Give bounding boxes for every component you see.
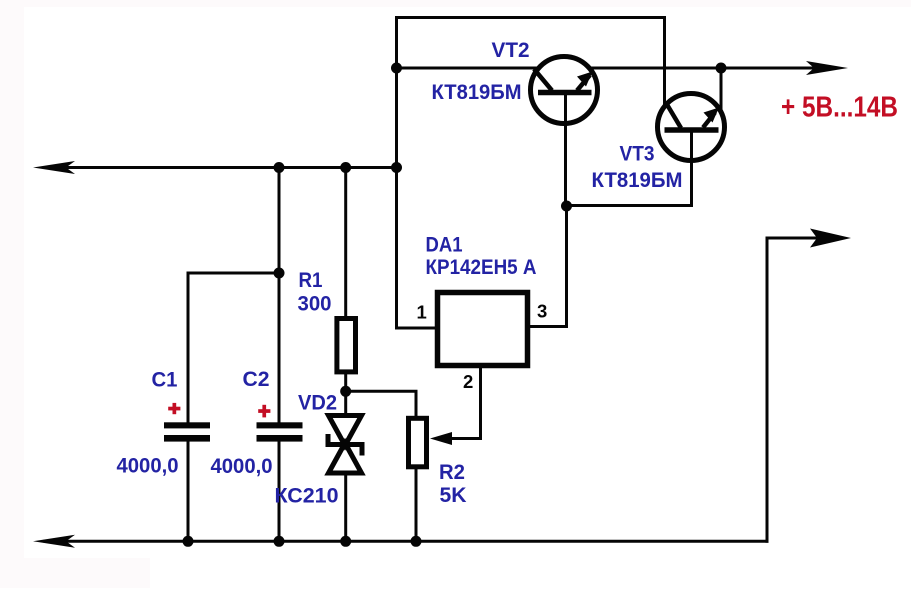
wire C1 bottom	[187, 440, 190, 541]
IC DA1 box	[438, 293, 528, 366]
wire R1 top	[344, 168, 347, 319]
node output emitter	[716, 63, 727, 74]
wire VT3 base down-left	[567, 130, 692, 206]
wire left input vertical	[395, 18, 398, 329]
wire second output horizontal	[767, 237, 818, 240]
arrow ground left	[33, 535, 75, 548]
transistor VT2	[531, 57, 598, 124]
svg-text:3: 3	[537, 301, 547, 322]
svg-text:2: 2	[463, 371, 473, 392]
wire VT3 collector drop	[663, 18, 666, 105]
zener diode VD2	[328, 416, 362, 474]
wire VD2 bottom	[344, 473, 347, 541]
capacitor C1	[164, 422, 210, 441]
wire node R1 to R2 top	[346, 391, 416, 418]
node input top	[391, 63, 402, 74]
wire ground rail bottom	[45, 540, 767, 543]
svg-text:4000,0: 4000,0	[211, 455, 273, 478]
node ground C1	[183, 536, 194, 547]
node ground C2	[274, 536, 285, 547]
svg-text:C1: C1	[152, 369, 178, 392]
label C2 plus	[258, 405, 270, 418]
wire second output vertical	[766, 238, 769, 541]
wire C1 top	[187, 273, 190, 424]
svg-text:R1: R1	[299, 269, 323, 292]
node R1 bottom	[340, 386, 351, 397]
svg-text:+ 5В...14В: + 5В...14В	[781, 92, 898, 124]
wire left AC input	[45, 166, 397, 169]
svg-text:1: 1	[417, 302, 427, 323]
node ground R2	[411, 536, 422, 547]
wire R2 wiper to pin2	[451, 368, 481, 439]
node C1 top	[274, 268, 285, 279]
node C2 top	[274, 162, 285, 173]
wire VT2 emitter to output	[592, 67, 820, 70]
arrow output mid-right	[810, 229, 851, 248]
arrow left input	[33, 161, 75, 174]
wire C2 bottom	[278, 440, 281, 541]
transistor VT3	[658, 94, 725, 161]
wire C2 branch	[278, 168, 281, 425]
label C1 plus	[168, 403, 180, 414]
wire R2 bottom	[415, 467, 418, 541]
svg-text:4000,0: 4000,0	[117, 455, 179, 478]
svg-text:КС210: КС210	[275, 485, 339, 508]
potentiometer R2	[409, 418, 427, 467]
wire R1 bottom	[344, 373, 347, 392]
resistor R1	[337, 319, 356, 372]
node R1 top	[340, 162, 351, 173]
node input left	[391, 162, 402, 173]
wire VT2 collector feed	[397, 67, 538, 70]
svg-text:КТ819БМ: КТ819БМ	[432, 81, 522, 104]
svg-text:C2: C2	[243, 368, 270, 391]
wire VT2 base down	[564, 92, 567, 207]
svg-text:VD2: VD2	[298, 392, 337, 415]
node base junction	[561, 201, 572, 212]
wire top rail	[397, 16, 665, 19]
svg-text:R2: R2	[439, 461, 465, 484]
svg-text:КР142ЕН5 А: КР142ЕН5 А	[426, 256, 537, 279]
node ground VD2	[340, 536, 351, 547]
svg-text:КТ819БМ: КТ819БМ	[592, 169, 683, 192]
R2 wiper arrow	[430, 432, 452, 445]
wire DA1 pin3	[528, 207, 567, 327]
arrow output top-right	[806, 61, 848, 75]
svg-text:5K: 5K	[440, 484, 467, 507]
wire VD2 top	[344, 391, 347, 416]
wire DA1 pin1	[397, 327, 438, 330]
svg-text:VT3: VT3	[620, 143, 655, 166]
wire VT3 emitter rise	[720, 68, 723, 108]
svg-text:DA1: DA1	[426, 234, 463, 257]
svg-text:VT2: VT2	[492, 39, 530, 62]
wire C1 link	[188, 272, 279, 275]
svg-text:300: 300	[298, 293, 332, 316]
capacitor C2	[257, 422, 303, 441]
